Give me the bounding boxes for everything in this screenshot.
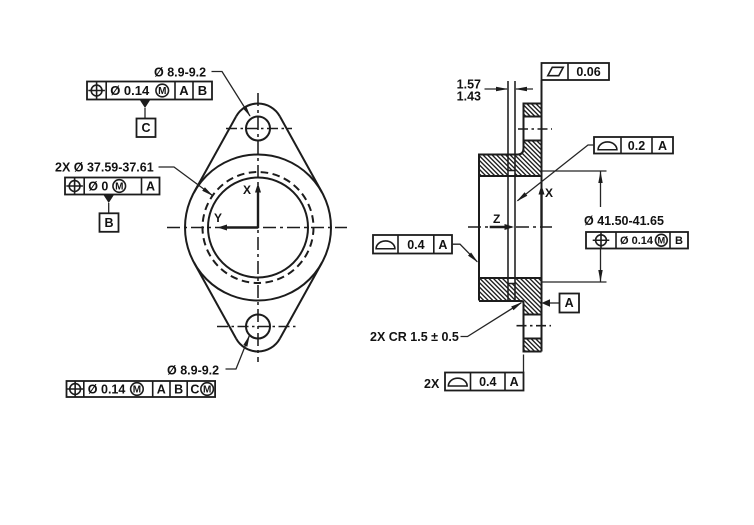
outer flange circle (185, 155, 331, 301)
top lobe arc (236, 104, 280, 117)
svg-text:0.06: 0.06 (576, 65, 600, 79)
svg-text:X: X (545, 186, 553, 200)
top hole left wall (523, 117, 525, 141)
bottom bolt hole (246, 315, 270, 339)
leader profile 0.2 (518, 145, 595, 201)
top hole centerline (226, 128, 292, 130)
svg-text:Z: Z (493, 212, 500, 226)
leader 0.4 A left (452, 244, 477, 262)
section horizontal centerline (468, 226, 552, 228)
leader bottom hole dia (226, 336, 250, 369)
svg-text:0.2: 0.2 (628, 139, 645, 153)
svg-text:C: C (190, 383, 199, 397)
feature control frame mid: position 0 M A (65, 178, 160, 195)
hidden groove circle dashed (203, 172, 314, 283)
svg-text:A: A (157, 383, 166, 397)
groove notch bottom edge (508, 283, 515, 285)
svg-text:0.4: 0.4 (407, 238, 424, 252)
front view vertical centerline (257, 93, 259, 362)
front view horizontal centerline (167, 227, 347, 229)
X axis arrow section (539, 185, 554, 228)
section outline upper band (479, 141, 542, 301)
bottom lobe arc (236, 339, 280, 352)
section hatch top boss block (524, 104, 542, 117)
svg-text:M: M (115, 182, 123, 193)
leader groove dia (159, 167, 213, 196)
groove notch top edge (508, 170, 515, 172)
bore top edge (479, 175, 542, 177)
feature control frame bottom: position 0.14 M A B CM (67, 381, 216, 398)
section outline top boss (524, 104, 542, 117)
svg-text:Ø 41.50-41.65: Ø 41.50-41.65 (584, 214, 664, 228)
section hatch bottom lobe block (524, 339, 542, 352)
svg-text:A: A (510, 375, 519, 389)
bottom hole centerline (217, 326, 297, 328)
right face line (541, 80, 543, 352)
svg-text:A: A (565, 296, 574, 310)
section bottom hole centerline (517, 325, 552, 327)
tangent line top-right (280, 116, 322, 192)
tangent line top-left (194, 116, 236, 192)
section top hole centerline (518, 128, 552, 130)
datum C symbol (137, 100, 156, 138)
svg-text:A: A (146, 180, 155, 194)
svg-text:A: A (658, 139, 667, 153)
svg-text:M: M (203, 385, 211, 396)
connector to bottom frame (523, 355, 525, 373)
svg-text:B: B (198, 83, 207, 98)
svg-text:B: B (675, 235, 683, 247)
svg-text:Y: Y (214, 211, 222, 225)
dim 41.50-41.65 dimension line with arrows (600, 171, 602, 207)
svg-text:B: B (174, 383, 183, 397)
svg-text:M: M (158, 86, 166, 97)
svg-text:Ø 0.14: Ø 0.14 (110, 83, 150, 98)
svg-text:B: B (104, 216, 113, 230)
leader 2X CR (461, 303, 522, 337)
profile frame 0.4 A left (373, 235, 452, 254)
section hatch lower band (479, 278, 542, 315)
X axis arrow front view (243, 183, 261, 228)
groove line left (507, 81, 509, 301)
svg-text:M: M (133, 385, 141, 396)
svg-text:2X Ø 37.59-37.61: 2X Ø 37.59-37.61 (55, 161, 154, 175)
FCF right: position 0.14 M B (586, 232, 688, 249)
svg-text:2X: 2X (424, 377, 440, 391)
Z axis arrow section (490, 212, 514, 230)
flatness frame 0.06 (542, 63, 610, 80)
section hatch upper band (479, 141, 542, 177)
svg-text:Ø 0.14: Ø 0.14 (620, 235, 654, 247)
profile frame 2X 0.4 A bottom (445, 373, 524, 391)
Y axis arrow front view (214, 211, 258, 231)
bore bottom edge (479, 277, 542, 279)
tangent line bottom-right (280, 263, 322, 339)
svg-text:X: X (243, 183, 251, 197)
datum B symbol (100, 195, 119, 232)
bore circle (208, 178, 308, 278)
section outline lower band and lobe (479, 301, 542, 352)
svg-text:M: M (657, 236, 665, 246)
svg-text:A: A (438, 238, 447, 252)
tangent line bottom-left (194, 263, 236, 339)
groove line right (514, 81, 516, 301)
dim 41.50-41.65 extension lines (542, 170, 607, 172)
svg-text:Ø 0.14: Ø 0.14 (88, 383, 126, 397)
svg-text:0.4: 0.4 (479, 375, 496, 389)
feature control frame top: position 0.14 M A B (87, 82, 212, 100)
datum A flag (542, 294, 580, 313)
svg-text:2X CR 1.5 ± 0.5: 2X CR 1.5 ± 0.5 (370, 330, 459, 344)
svg-text:Ø 0: Ø 0 (88, 180, 108, 194)
profile frame 0.2 A (594, 137, 673, 154)
leader top hole dia (212, 72, 251, 117)
top bolt hole (246, 117, 270, 141)
svg-text:Ø 8.9-9.2: Ø 8.9-9.2 (154, 66, 206, 80)
svg-text:1.43: 1.43 (457, 90, 481, 104)
svg-text:Ø 8.9-9.2: Ø 8.9-9.2 (167, 364, 219, 378)
dim 1.57-1.43 arrows (485, 88, 508, 90)
svg-text:A: A (179, 83, 189, 98)
svg-text:C: C (141, 121, 150, 135)
